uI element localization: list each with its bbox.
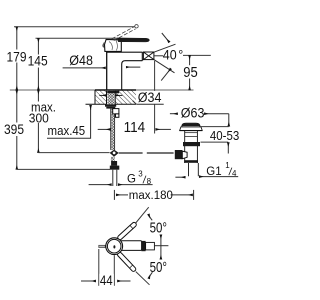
bottom extension line of 395 [17,168,110,170]
svg-text:Ø63: Ø63 [181,105,205,121]
pop-up actuating rod (horizontal, with break) [119,152,143,154]
upper angle arrow [149,214,153,220]
dimension line 395 [16,90,18,169]
small arcs left of base [102,43,105,48]
cone angle arrow lower [161,69,171,81]
svg-text:3: 3 [138,168,143,178]
waste flange rim [180,127,203,130]
svg-text:G1: G1 [206,163,222,178]
svg-text:145: 145 [28,53,48,69]
svg-text:395: 395 [4,121,24,137]
internal arrow pointing at body [126,66,140,68]
svg-text:Ø34: Ø34 [138,90,162,106]
svg-text:1: 1 [225,159,230,169]
upper swivel arm [117,222,137,241]
lower arm extension line [136,272,150,285]
svg-text:Ø48: Ø48 [69,52,93,68]
rod knurled nut on waste [175,150,183,159]
threaded shank in hole [107,91,119,94]
counter / deck cross-section with hatch [95,90,136,104]
svg-text:G: G [127,171,136,186]
waste flange cap [182,123,200,127]
lever raised position (dashed) [112,27,134,39]
junction of pop-up rod (cross) [110,150,119,157]
below-deck mounting nut [105,104,116,106]
arrows marking hole dia 34 [99,94,106,96]
svg-text:50°: 50° [150,258,167,275]
label Ø34 with underline leader [136,91,164,104]
lower angle arrow [149,272,153,278]
waste seal ring (dark band) [183,142,200,146]
svg-text:300: 300 [29,111,49,126]
connection tails [112,170,114,186]
lever end cap [146,242,155,250]
waste tailpipe [188,163,190,176]
svg-text:max.45: max.45 [48,124,86,139]
svg-text:44: 44 [100,273,113,288]
svg-text:50°: 50° [150,219,167,236]
dimension line max.300 [37,90,39,153]
svg-text:40-53: 40-53 [210,128,239,143]
top view body circle [106,238,123,255]
rod stub left of body [99,245,105,247]
hose end nuts G3/8 [111,161,117,166]
lever handle (solid, closed position) [118,38,150,42]
dimension 114 [98,128,111,130]
waste lower ring [184,160,198,163]
label 179 [5,50,28,63]
dimension G1 1/4 [175,176,185,178]
dimension max.180 [113,190,115,200]
cone angle arrow upper [162,33,170,42]
svg-text:179: 179 [7,49,27,65]
dimension 145 extension line [36,37,119,39]
label max. [30,102,55,114]
flexible hose lower [111,157,115,161]
faucet body [107,51,143,53]
dimension 179 extension line (top) [14,26,135,28]
mounting hole through deck [106,91,115,105]
svg-text:114: 114 [124,119,146,136]
dimension Ø63 [170,113,178,115]
G 3/8 dimension arrows [89,184,112,186]
svg-text:max.180: max.180 [129,188,173,203]
waste neck [184,131,186,163]
aerator ring at spout nose [141,52,143,61]
svg-text:4: 4 [232,168,237,178]
outlet box with X (mousseur) [143,52,154,60]
pop-up rod guide [113,109,119,114]
swivel axis cross [155,245,169,247]
deck reference line [10,89,194,91]
dimension line 145 [37,38,39,90]
label 300 [28,112,52,124]
spray cone 40 deg lines [154,44,176,52]
dimension 44 [98,249,100,286]
extension line from outlet (114-dim right reference) [154,61,156,134]
label 395 [3,123,27,137]
svg-text:40°: 40° [163,47,183,63]
svg-text:8: 8 [147,176,152,186]
svg-text:95: 95 [183,64,198,80]
lever dark tip [141,241,145,251]
bottom extension line of max.300 (hose connection level) [38,152,109,154]
dimension 95 [183,54,211,56]
lower swivel arm [117,251,137,272]
upper arm extension line [135,207,148,223]
label 95 [181,65,199,78]
lever base block [105,39,122,51]
top view lever bar [120,241,142,251]
dimension line 179 [16,27,18,90]
label 145 [27,55,50,68]
flexible hose upper [111,109,115,150]
dimension 40-53 [228,114,230,127]
raised lever tip circle [135,25,138,28]
